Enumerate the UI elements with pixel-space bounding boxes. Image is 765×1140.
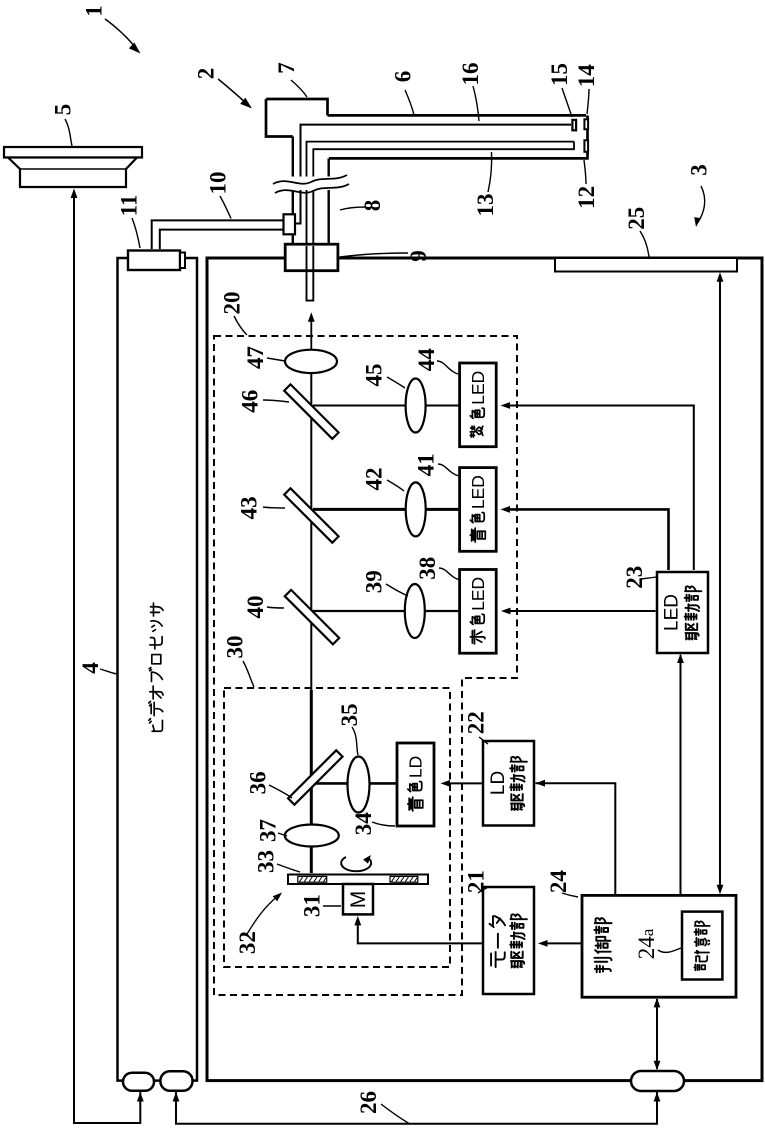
svg-text:LD: LD (406, 756, 426, 778)
branch line blue LD (314, 782, 397, 785)
plug mount box 9 (285, 244, 338, 271)
svg-text:LED: LED (468, 475, 488, 509)
phosphor wheel 33 (288, 875, 428, 885)
optical axis (vertical beam line) (310, 373, 312, 690)
branch line blue LED (thick) (313, 508, 460, 511)
wire panel 25 to control (both arrows) (719, 275, 721, 891)
svg-text:47: 47 (243, 346, 268, 369)
signal cable 16 (bends down in handle) (301, 125, 572, 176)
wire LED driver to violet LED (504, 406, 694, 571)
leader 40 (267, 607, 284, 608)
dichroic mirror 46 (284, 384, 338, 438)
observation window 12 (584, 140, 588, 152)
endoscope handle 7 outline (266, 99, 328, 137)
leader 26 (381, 1104, 409, 1124)
leader 41 (438, 464, 459, 476)
svg-text:4: 4 (78, 662, 103, 674)
insertion tube 6 outer walls (328, 114, 587, 117)
svg-text:13: 13 (473, 194, 498, 217)
svg-text:22: 22 (464, 711, 489, 734)
svg-text:LED: LED (468, 577, 488, 611)
wire control to connector (both arrows) (656, 999, 658, 1069)
cable 26: video processor to light source (176, 1090, 657, 1124)
wire control to motor driver (542, 942, 581, 944)
wire LD driver to blue LD (445, 782, 483, 784)
dashed box 30 (laser/phosphor unit) (224, 688, 450, 967)
svg-text:35: 35 (337, 703, 362, 726)
leader 35 (352, 727, 358, 755)
dichroic mirror 40 (285, 590, 339, 644)
svg-text:34: 34 (351, 812, 376, 836)
leader 21 (478, 888, 487, 893)
VP connector stadium A (123, 1073, 154, 1091)
leader 38 (439, 568, 460, 580)
svg-text:LD: LD (488, 771, 509, 795)
svg-text:8: 8 (360, 200, 385, 212)
svg-text:23: 23 (622, 566, 647, 589)
svg-text:40: 40 (243, 596, 268, 619)
leader 5 (65, 119, 72, 146)
svg-text:46: 46 (238, 390, 263, 413)
svg-text:M: M (347, 891, 370, 909)
light source box 3 (207, 258, 762, 1081)
LD driver box 22 (483, 741, 534, 826)
leader 46 (263, 400, 289, 402)
svg-text:32: 32 (235, 931, 260, 954)
break squiggle upper (273, 175, 347, 184)
svg-text:24a: 24a (634, 928, 659, 959)
leader 34 (372, 822, 395, 826)
svg-text:LED: LED (662, 594, 683, 631)
leader 47 (267, 358, 285, 361)
collimator lens 42 (406, 482, 426, 536)
light guide rod into housing (307, 246, 314, 301)
svg-text:30: 30 (223, 636, 248, 659)
cable 10 to connector 11 (152, 220, 284, 249)
break squiggle lower (275, 184, 349, 193)
svg-text:37: 37 (256, 819, 281, 842)
blue LED box 41 (460, 468, 497, 552)
video processor text (149, 603, 163, 731)
branch line red LED (313, 610, 461, 612)
distal end face (586, 115, 589, 159)
video processor box 4 (118, 258, 198, 1081)
rotation arrow of phosphor wheel (341, 857, 371, 871)
leader 36 (269, 785, 292, 798)
wire: video processor to scope connector 5 (74, 196, 140, 1123)
leader 22 (479, 737, 488, 744)
svg-text:7: 7 (274, 62, 299, 74)
lens 37 (285, 825, 339, 847)
plug inner light guide lines (300, 176, 302, 224)
scope connector 5 (top-left plug) (4, 147, 142, 158)
mirror 36 (LD combiner) (288, 750, 342, 804)
leader 25 (640, 231, 649, 257)
side port block (284, 214, 296, 234)
leader 45 (387, 377, 405, 388)
dichroic mirror 43 (284, 488, 338, 542)
svg-text:3: 3 (687, 164, 712, 176)
leader 31 (323, 905, 341, 907)
VP connector stadium B (160, 1071, 192, 1091)
leader 20 (234, 316, 247, 335)
svg-text:38: 38 (415, 557, 440, 580)
svg-text:45: 45 (362, 364, 387, 387)
svg-text:39: 39 (362, 570, 387, 593)
svg-text:15: 15 (547, 63, 572, 86)
imaging unit 15 block at tip (572, 120, 576, 130)
svg-text:24: 24 (546, 870, 571, 894)
leader 37 (278, 833, 287, 836)
svg-text:12: 12 (574, 186, 599, 209)
collimator lens 39 (405, 584, 425, 638)
wire LED driver to blue LED (thick) (504, 509, 669, 570)
svg-text:5: 5 (51, 104, 76, 116)
violet LED box 44 (460, 363, 497, 447)
leader 23 (641, 577, 656, 579)
svg-text:43: 43 (236, 496, 261, 519)
svg-text:10: 10 (206, 172, 231, 195)
dashed box 20 (LED light source unit) (214, 336, 517, 995)
light guide 13 upper line (307, 142, 575, 176)
svg-text:20: 20 (220, 292, 245, 315)
svg-text:LED: LED (468, 371, 488, 405)
break mark gap (272, 177, 348, 191)
svg-text:16: 16 (458, 63, 483, 86)
leader 24a (658, 948, 681, 952)
motor driver box 21 (483, 887, 534, 994)
svg-text:36: 36 (245, 771, 270, 794)
svg-text:25: 25 (624, 207, 649, 230)
svg-text:44: 44 (414, 348, 439, 372)
svg-text:26: 26 (356, 1091, 381, 1114)
red LED box 38 (460, 570, 497, 654)
memory box 24a (682, 912, 722, 980)
svg-text:2: 2 (194, 68, 219, 80)
leader 39 (386, 584, 408, 596)
wire control to LED driver (680, 655, 682, 894)
connector 11 on video processor (128, 251, 180, 271)
collimator lens 45 (406, 379, 426, 433)
branch line violet LED (313, 405, 460, 407)
leader 43 (263, 507, 285, 508)
control box 24 (582, 895, 736, 997)
svg-text:1: 1 (82, 5, 107, 17)
leader 4 (100, 669, 117, 674)
beam arrow into light guide rod (310, 319, 312, 349)
svg-text:31: 31 (300, 894, 325, 917)
svg-text:6: 6 (391, 71, 416, 83)
svg-text:11: 11 (117, 195, 142, 217)
wheel phosphor segment right (hatched) (390, 876, 418, 882)
condenser lens 47 (285, 350, 337, 373)
connector socket (right stadium) (631, 1071, 684, 1091)
light guide 13 lower line + end (313, 142, 574, 176)
wheel phosphor segment left (hatched) (298, 876, 327, 882)
leader 42 (387, 480, 404, 491)
svg-text:9: 9 (406, 250, 431, 262)
panel bar 25 (555, 258, 737, 272)
leader 44 (437, 361, 458, 374)
leader 30 (243, 661, 254, 687)
signal cable into side port (296, 190, 301, 224)
wire motor driver to motor M (358, 920, 483, 944)
svg-text:41: 41 (414, 453, 439, 476)
lens 35 (348, 757, 370, 813)
svg-text:42: 42 (362, 468, 387, 491)
scope plug 8 outer edges (292, 137, 294, 245)
svg-text:33: 33 (254, 850, 279, 873)
motor box M 31 (343, 884, 373, 914)
blue LD box 34 (397, 743, 434, 826)
leader 33 (277, 864, 300, 872)
svg-text:14: 14 (574, 64, 599, 88)
leader 24 (562, 893, 578, 897)
wire control to LD driver (536, 783, 616, 894)
LED driver box 23 (657, 572, 708, 653)
wire LED driver to red LED (505, 610, 656, 612)
illumination window 14 (584, 119, 588, 129)
leader 7 (291, 80, 307, 97)
